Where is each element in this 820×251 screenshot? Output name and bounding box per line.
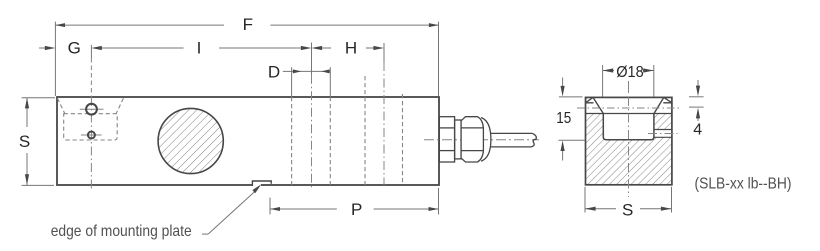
svg-text:G: G: [68, 39, 81, 58]
svg-text:I: I: [197, 38, 202, 57]
svg-text:edge of mounting plate: edge of mounting plate: [51, 223, 192, 240]
svg-text:(SLB-xx lb--BH): (SLB-xx lb--BH): [695, 176, 792, 193]
svg-text:S: S: [622, 201, 633, 220]
side slot: [654, 130, 672, 138]
dimension H: [322, 47, 375, 49]
svg-text:P: P: [351, 200, 362, 219]
connector dome: [481, 118, 491, 162]
cable centerline: [424, 139, 539, 141]
big through-hole hatched circle: [158, 108, 223, 173]
hole centerline ticks: [80, 109, 104, 135]
svg-text:4: 4: [693, 122, 702, 139]
bottom notch (edge of mounting plate reference): [253, 183, 261, 187]
pocket walls and floor: [603, 114, 654, 140]
dimension D: [283, 70, 331, 72]
section outline: [586, 97, 672, 184]
load cell body outline: [57, 97, 439, 185]
svg-text:S: S: [19, 132, 30, 151]
svg-text:F: F: [243, 15, 253, 34]
svg-text:D: D: [268, 62, 280, 81]
dimension F: [55, 24, 438, 26]
countersink chamfer lines: [586, 97, 672, 113]
dimension I: [101, 47, 301, 49]
hidden vertical lines inside body: [292, 76, 403, 185]
hole circle top: [86, 104, 97, 115]
F extension lines: [55, 22, 438, 96]
horizontal centerline of slot: [648, 133, 678, 135]
leader: edge of mounting plate: [202, 190, 257, 235]
horizontal centerline upper: [577, 107, 681, 109]
dimension P: [270, 188, 439, 215]
hidden pocket trapezoid (dashed): [57, 98, 123, 140]
dimension G: [39, 47, 46, 49]
dimension S (left) extension lines: [22, 98, 56, 186]
vertical centerline of holes: [90, 45, 92, 58]
vertical centerlines (dash-dot): [312, 62, 385, 189]
hatched section body: [586, 97, 672, 184]
dimension 15: [558, 78, 584, 161]
cone bottom line: [586, 113, 672, 115]
hole circle bottom: [88, 132, 95, 139]
cable: [490, 132, 533, 134]
svg-text:15: 15: [556, 110, 571, 127]
dimension S (right): [585, 187, 672, 213]
connector ring: [455, 120, 462, 159]
connector flange: [439, 117, 536, 162]
vertical centerline: [628, 81, 630, 93]
connector hex nut: [461, 117, 483, 162]
svg-text:H: H: [345, 38, 357, 57]
dimension O18: [603, 65, 654, 97]
svg-text:Ø18: Ø18: [616, 64, 644, 81]
dimension 4: [689, 80, 704, 121]
